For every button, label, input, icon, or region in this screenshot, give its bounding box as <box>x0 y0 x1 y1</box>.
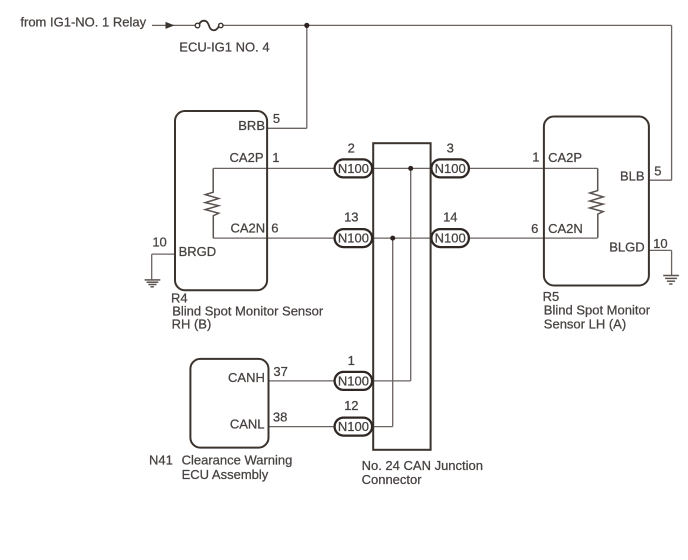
svg-text:No. 24 CAN Junction: No. 24 CAN Junction <box>362 458 483 473</box>
svg-text:13: 13 <box>344 209 358 224</box>
svg-text:1: 1 <box>532 150 539 165</box>
svg-text:CANH: CANH <box>228 370 265 385</box>
svg-text:12: 12 <box>344 398 358 413</box>
svg-text:1: 1 <box>348 353 355 368</box>
svg-text:ECU Assembly: ECU Assembly <box>182 467 269 482</box>
svg-text:3: 3 <box>447 141 454 156</box>
svg-text:5: 5 <box>654 164 661 179</box>
svg-text:RH (B): RH (B) <box>172 317 212 332</box>
svg-text:BLB: BLB <box>620 169 645 184</box>
svg-text:N100: N100 <box>338 231 369 246</box>
svg-text:6: 6 <box>271 220 278 235</box>
svg-text:10: 10 <box>152 234 166 249</box>
svg-text:2: 2 <box>348 141 355 156</box>
svg-text:38: 38 <box>273 410 287 425</box>
svg-text:1: 1 <box>272 150 279 165</box>
svg-text:N100: N100 <box>338 419 369 434</box>
svg-text:ECU-IG1 NO. 4: ECU-IG1 NO. 4 <box>179 40 269 55</box>
svg-text:CA2N: CA2N <box>231 220 266 235</box>
svg-text:5: 5 <box>273 111 280 126</box>
svg-text:CA2P: CA2P <box>548 150 582 165</box>
svg-text:BLGD: BLGD <box>609 240 644 255</box>
svg-text:BRGD: BRGD <box>179 244 217 259</box>
svg-text:N41: N41 <box>149 452 173 467</box>
svg-text:10: 10 <box>653 236 667 251</box>
svg-text:CA2P: CA2P <box>230 150 264 165</box>
svg-text:N100: N100 <box>435 231 466 246</box>
svg-text:CA2N: CA2N <box>548 221 583 236</box>
svg-text:Sensor LH (A): Sensor LH (A) <box>544 316 626 331</box>
svg-text:BRB: BRB <box>238 118 265 133</box>
svg-text:37: 37 <box>273 364 287 379</box>
svg-text:Connector: Connector <box>362 472 423 487</box>
svg-text:from IG1-NO. 1 Relay: from IG1-NO. 1 Relay <box>20 14 146 29</box>
svg-text:6: 6 <box>531 221 538 236</box>
svg-text:N100: N100 <box>338 374 369 389</box>
svg-text:14: 14 <box>443 209 457 224</box>
svg-text:Clearance Warning: Clearance Warning <box>182 452 293 467</box>
svg-text:CANL: CANL <box>230 417 265 432</box>
svg-text:N100: N100 <box>338 161 369 176</box>
svg-text:N100: N100 <box>435 161 466 176</box>
